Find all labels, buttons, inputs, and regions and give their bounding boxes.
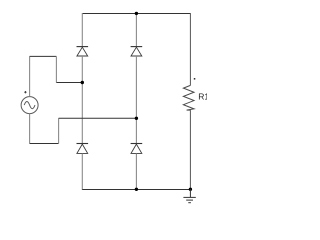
wire V1 bottom terminal down xyxy=(29,114,31,144)
wire V1 top to node A xyxy=(56,82,82,84)
svg-text:R1: R1 xyxy=(198,92,207,102)
polarity dot marker of R1 xyxy=(194,78,196,80)
wire V1 bottom horizontal xyxy=(30,143,59,145)
plus polarity mark of V1 xyxy=(24,91,26,93)
AC source V1 xyxy=(21,97,38,114)
diode D2 top-right (cathode up) xyxy=(131,47,143,56)
ground symbol xyxy=(183,189,195,202)
diode D1 top-left (cathode up) xyxy=(77,47,89,56)
wire middle leg upper (top rail to D2 cathode) xyxy=(135,13,137,47)
wire right leg upper (top rail to R1) xyxy=(189,13,191,85)
wire left leg mid (D1 anode to node A) xyxy=(81,56,83,83)
wire V1 bottom to node B xyxy=(59,117,137,119)
junction bottom rail / middle leg xyxy=(135,188,138,191)
diode D4 bottom-right (cathode up) xyxy=(131,144,143,154)
wire left leg upper (top rail to D1 cathode) xyxy=(81,13,83,47)
wire top rail xyxy=(82,13,190,15)
wire right leg lower (R1 to ground node) xyxy=(189,110,191,189)
junction node B (middle leg / V1 bottom) xyxy=(135,117,138,120)
resistor R1 xyxy=(183,85,194,110)
wire V1 top horizontal xyxy=(30,55,57,57)
wire middle leg bottom (D4 anode to bottom rail) xyxy=(135,153,137,190)
wire middle leg lower (node B to D4 cathode) xyxy=(135,118,137,143)
wire left leg bottom (D3 anode to bottom rail) xyxy=(81,153,83,190)
wire V1 top drop xyxy=(55,56,57,82)
junction top rail / middle leg xyxy=(135,12,138,15)
wire bottom rail xyxy=(82,189,190,191)
junction bottom rail / ground xyxy=(189,188,192,191)
wire middle leg mid (D2 anode to node B) xyxy=(135,56,137,118)
wire V1 bottom riser xyxy=(58,118,60,143)
wire V1 top terminal up xyxy=(29,56,31,96)
diode D3 bottom-left (cathode up) xyxy=(77,144,89,154)
junction node A (left leg / V1 top) xyxy=(81,81,84,84)
wire left leg lower (node A to D3 cathode) xyxy=(81,83,83,144)
